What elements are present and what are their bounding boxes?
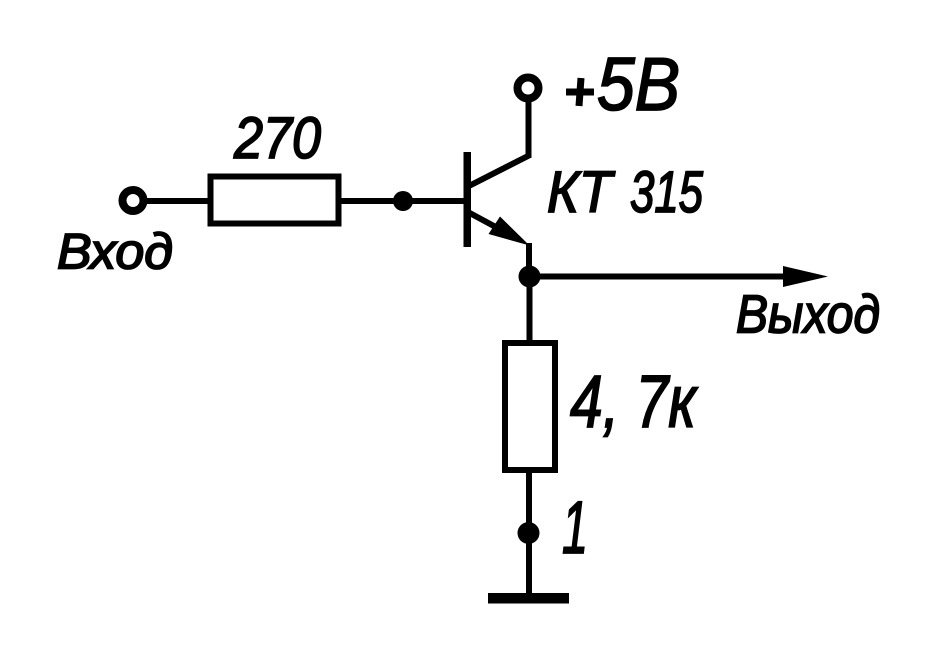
transistor Q1 emitter diagonal xyxy=(466,211,505,232)
transistor Q1 emitter arrowhead xyxy=(489,217,530,246)
wire input to R1 xyxy=(147,198,211,204)
transistor Q1 base bar xyxy=(464,152,472,247)
svg-text:КТ: КТ xyxy=(547,160,616,225)
transistor Q1 collector diagonal xyxy=(467,156,529,188)
resistor R2 4,7k xyxy=(505,343,555,470)
input terminal circle xyxy=(123,190,144,211)
svg-text:315: 315 xyxy=(630,160,703,225)
resistor R1 270 xyxy=(211,177,339,224)
wire R1 to base xyxy=(341,198,464,204)
wire R2 to ground xyxy=(526,470,532,596)
junction dot emitter node xyxy=(519,266,541,288)
svg-text:270: 270 xyxy=(233,106,321,171)
+5V terminal circle xyxy=(518,78,539,99)
output arrowhead xyxy=(783,266,828,287)
junction dot node 1 xyxy=(518,522,540,544)
svg-text:1: 1 xyxy=(562,486,588,569)
wire collector vertical xyxy=(526,102,532,158)
junction dot base node xyxy=(393,191,413,211)
wire emitter node to R2 xyxy=(527,280,533,343)
wire output horizontal xyxy=(529,274,788,280)
wire emitter vertical xyxy=(526,243,532,280)
ground xyxy=(488,593,569,604)
svg-text:Вход: Вход xyxy=(57,224,173,280)
svg-text:4, 7к: 4, 7к xyxy=(570,360,698,443)
svg-text:5В: 5В xyxy=(597,42,680,126)
svg-text:Выход: Выход xyxy=(736,286,880,345)
label +5В : plus sign xyxy=(566,78,594,106)
